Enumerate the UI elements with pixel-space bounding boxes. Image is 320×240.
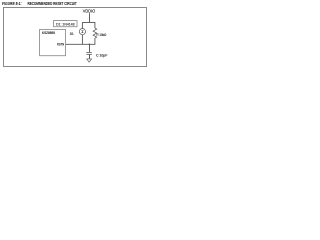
IC KSZ8895 box (40, 30, 66, 56)
wire diode to node (81, 35, 83, 45)
ground (87, 59, 92, 62)
svg-text:R 10kΩ: R 10kΩ (97, 32, 107, 37)
wire VDDIO stem down to top branch (89, 13, 91, 22)
wire branch down to diode (81, 23, 83, 29)
svg-text:C 10µF: C 10µF (96, 53, 108, 58)
diode D1 circle (79, 29, 85, 35)
svg-text:RECOMMENDED RESET CIRCUIT: RECOMMENDED RESET CIRCUIT (28, 1, 77, 6)
wire node horizontal from RSTN pin (66, 43, 96, 45)
svg-text:VDDIO: VDDIO (83, 8, 96, 13)
wire capacitor to ground (89, 54, 91, 59)
svg-text:D1: 1N4148: D1: 1N4148 (56, 22, 75, 26)
resistor R zigzag (93, 28, 97, 38)
junction dot (89, 44, 91, 46)
wire top branch horizontal (82, 22, 95, 24)
figure frame (4, 8, 147, 67)
wire resistor to node (94, 38, 96, 44)
wire node down to capacitor (89, 44, 91, 52)
note box D1: 1N4148 (54, 21, 78, 27)
svg-text:D1: D1 (70, 31, 74, 36)
wire branch down to resistor (94, 23, 96, 29)
diode D1 triangle (81, 31, 83, 33)
svg-text:FIGURE 8-1:: FIGURE 8-1: (2, 1, 22, 6)
capacitor C top plate (86, 51, 92, 53)
capacitor C bottom plate (86, 53, 92, 55)
svg-text:RSTN: RSTN (57, 43, 65, 47)
svg-text:KSZ8895: KSZ8895 (42, 31, 55, 35)
diode D1 cathode bar (81, 30, 83, 32)
